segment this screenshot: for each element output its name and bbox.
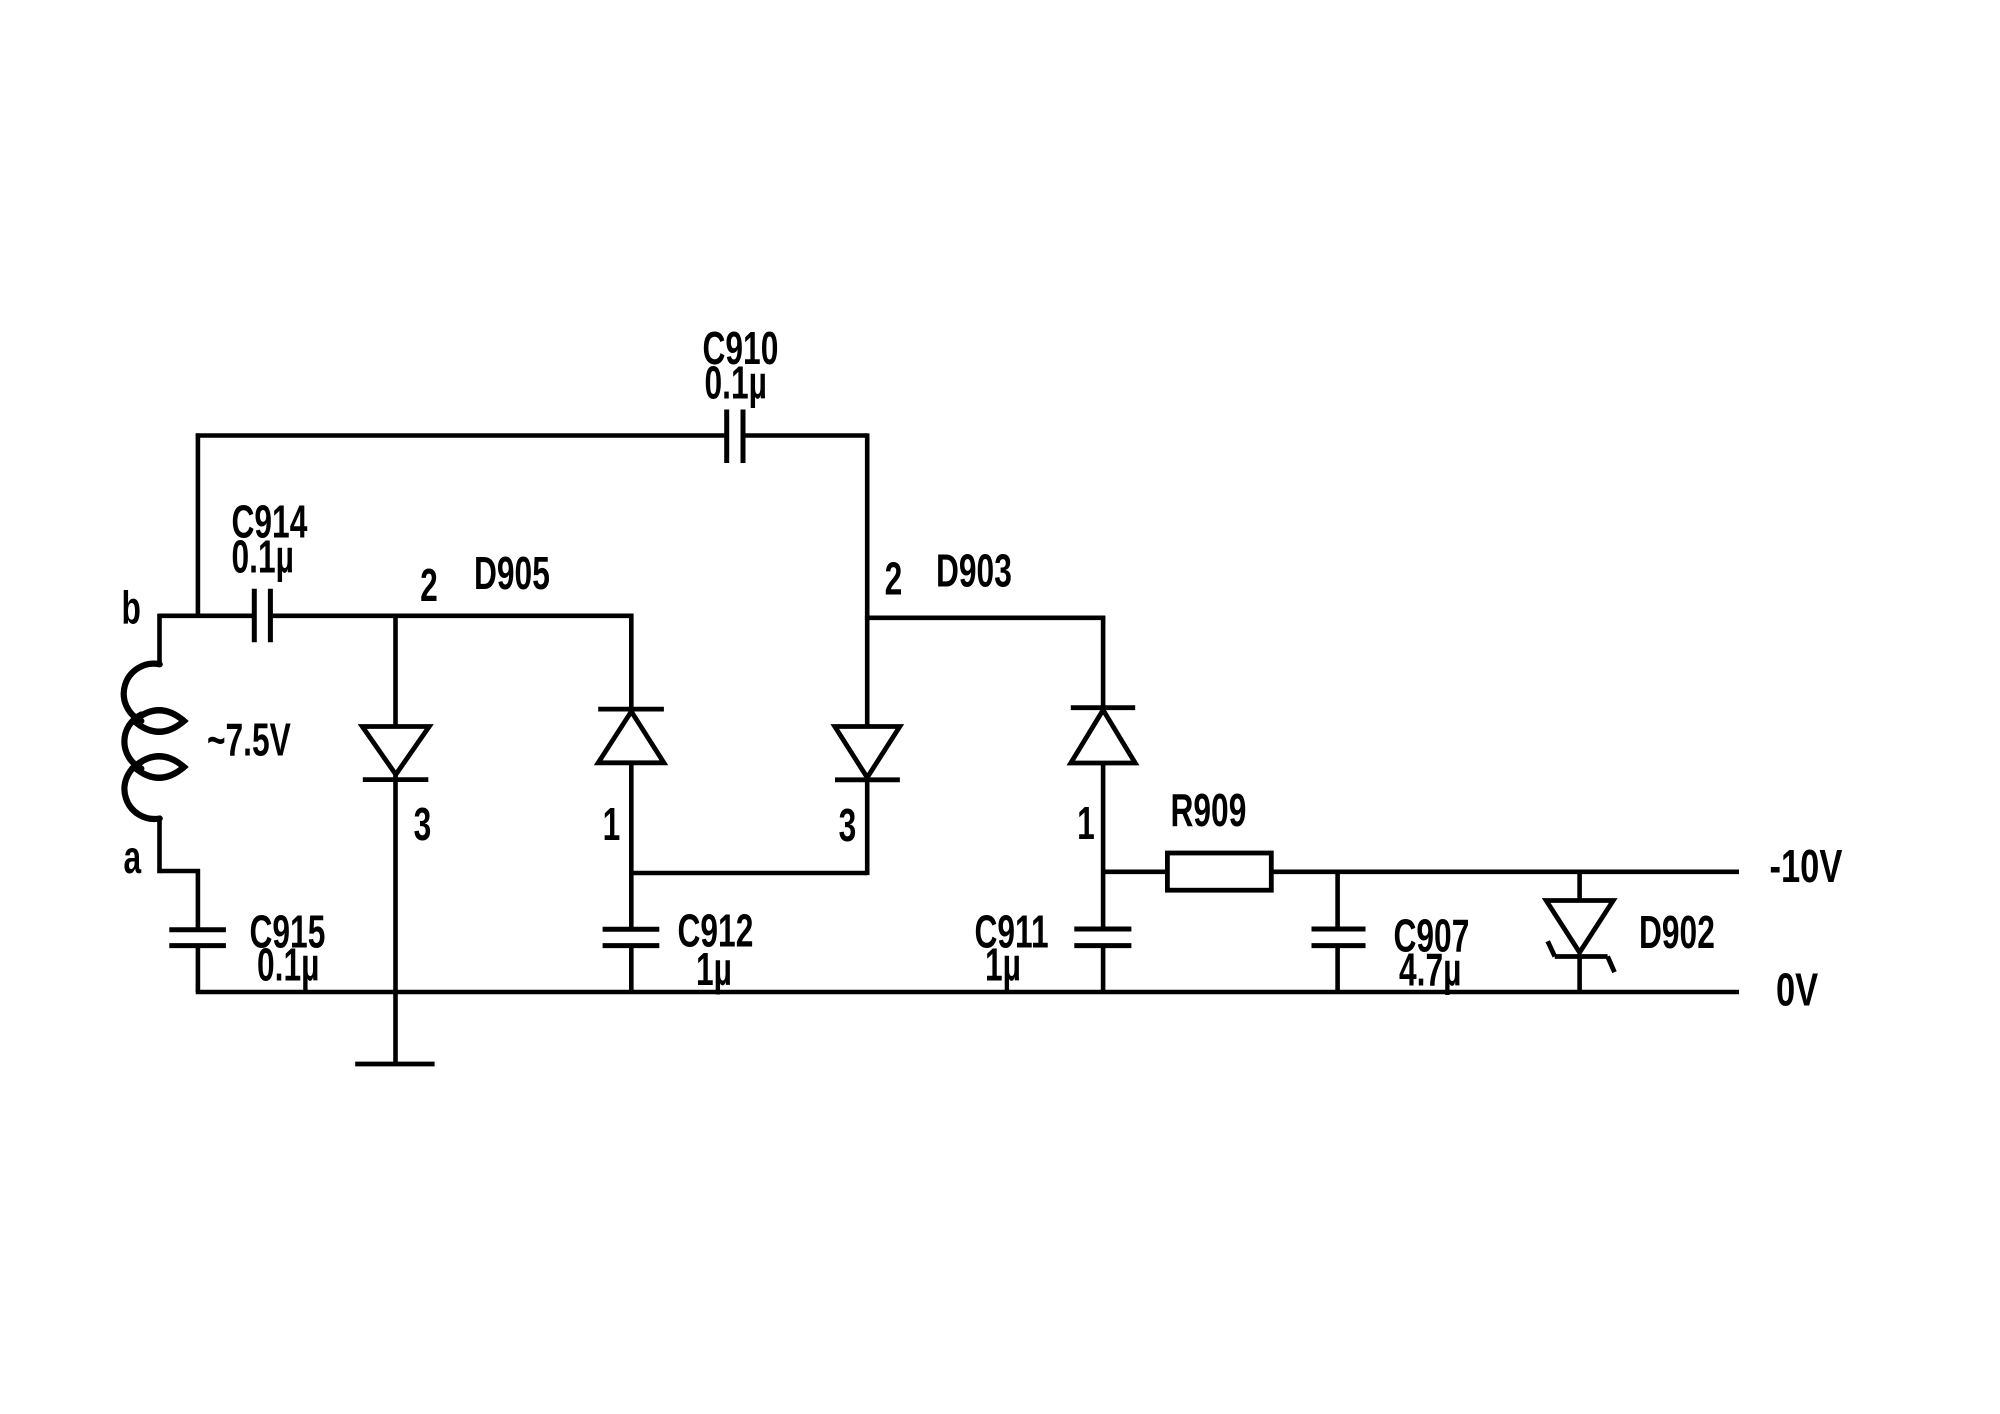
wire D905 pin1 vertical upper [629, 614, 634, 930]
wire D902 vertical upper [1577, 870, 1582, 902]
transformer winding loop lens 2 [134, 756, 184, 778]
svg-text:1: 1 [603, 799, 621, 850]
wire D903 pin1 vertical upper [1101, 616, 1106, 929]
transformer winding loop lens 1 [134, 710, 184, 732]
svg-text:1µ: 1µ [985, 940, 1021, 991]
diode D905 element b (pin1, cathode up) [598, 709, 664, 763]
capacitor C911 plates [1074, 929, 1131, 946]
wire -10V rail left of R909 [1103, 869, 1169, 874]
svg-text:D903: D903 [936, 546, 1012, 597]
zener diode D902 [1546, 901, 1614, 973]
wire node b horizontal right of C914 to D905 [273, 613, 634, 618]
ground [355, 1062, 434, 1067]
diode D903 element a (pin2-pin3, cathode down) [835, 727, 900, 780]
svg-text:4.7µ: 4.7µ [1399, 945, 1461, 996]
capacitor C910 plates [727, 410, 743, 464]
wire top loop right segment [745, 433, 867, 438]
diode D905 element a (pin2-pin3, cathode down) [362, 727, 429, 780]
capacitor C907 plates [1312, 929, 1366, 946]
wire C907 vertical lower [1335, 946, 1340, 992]
wire node a horizontal [157, 869, 200, 874]
capacitor C914 plates [254, 589, 270, 643]
svg-text:a: a [124, 832, 142, 883]
svg-text:3: 3 [839, 800, 857, 851]
transformer winding ~7.5V arc 1 [124, 664, 160, 721]
svg-text:R909: R909 [1171, 785, 1247, 836]
wire D903 node 2 horizontal [865, 615, 1105, 620]
wire C911 vertical lower [1101, 946, 1106, 992]
wire C912 vertical lower [629, 946, 634, 992]
svg-text:0.1µ: 0.1µ [257, 940, 319, 991]
transformer winding arc 2 [124, 715, 141, 769]
svg-text:2: 2 [885, 554, 903, 605]
svg-text:1µ: 1µ [696, 944, 732, 995]
svg-text:-10V: -10V [1770, 840, 1843, 892]
svg-text:D905: D905 [474, 548, 550, 599]
wire C907 vertical upper [1335, 870, 1340, 929]
wire left loop vertical [196, 433, 201, 618]
wire D903 top vertical from C910 [865, 433, 870, 620]
diode D903 element b (pin1, cathode up) [1071, 708, 1135, 763]
svg-text:D902: D902 [1639, 907, 1715, 958]
wire D903 pin3 vertical [865, 616, 870, 875]
wire D905 pin3 vertical to ground [393, 614, 398, 1064]
wire C915 vertical lower [196, 946, 201, 992]
svg-text:3: 3 [414, 799, 432, 850]
wire mid between D905 pin1 and D903 pin3 [631, 871, 867, 876]
svg-text:~7.5V: ~7.5V [207, 715, 291, 766]
capacitor C912 plates [603, 929, 660, 945]
transformer winding arc 3 [124, 762, 159, 819]
svg-text:b: b [122, 583, 141, 634]
wire top loop left segment [196, 433, 725, 438]
wire C915 vertical upper [196, 869, 201, 930]
svg-text:0.1µ: 0.1µ [705, 358, 767, 409]
wire -10V rail right of R909 [1270, 869, 1739, 874]
wire 0V rail [196, 990, 1739, 995]
wire b terminal vertical [157, 614, 162, 665]
svg-text:2: 2 [420, 560, 438, 611]
wire D902 vertical lower [1577, 954, 1582, 992]
svg-text:1: 1 [1077, 798, 1095, 849]
capacitor C915 plates [169, 930, 226, 946]
svg-text:0.1µ: 0.1µ [232, 532, 294, 583]
svg-text:0V: 0V [1776, 964, 1818, 1016]
resistor R909 body [1167, 853, 1271, 890]
wire coil bottom vertical [157, 818, 162, 873]
wire node b horizontal left of C914 [158, 613, 252, 618]
